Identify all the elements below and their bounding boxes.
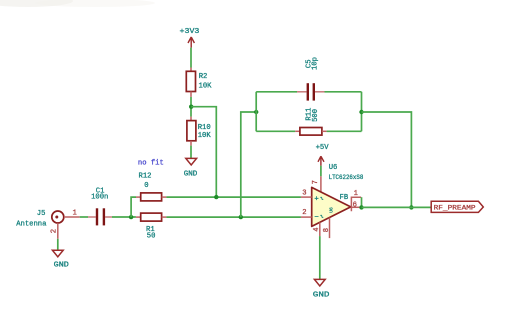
junction pin2 row [239,215,243,219]
pin R1 right [162,216,167,218]
wire feedback right to output drop [362,112,412,207]
svg-text:−: − [314,214,319,222]
pin U6 8 [323,218,331,239]
svg-text:U6: U6 [329,207,335,213]
global label RF_PREAMP [431,201,483,212]
op-amp U6 [312,164,364,226]
svg-text:50: 50 [147,233,156,241]
resistor R11 [300,108,322,135]
svg-text:10K: 10K [199,83,213,91]
wire R2 to R10 [190,97,192,117]
ground op-amp [313,279,330,299]
power flag +5V [316,144,330,166]
wire C5 left [256,91,297,93]
svg-text:4: 4 [313,227,321,231]
pin U6 6 [351,201,361,209]
junction divider node [189,105,193,109]
pin R11 left [295,130,300,132]
svg-text:500: 500 [312,109,320,122]
wire R1 to pin2 [166,216,301,218]
wire R12 to pin3 [166,196,301,198]
pin U6 1 [351,190,361,212]
junction output [359,205,363,209]
wire feedback right vertical [361,92,363,132]
wire divider node to pin3 row [191,107,216,197]
wire +5V to pin7 [320,166,322,177]
power flag +3V3 [180,28,200,48]
wire pin4 to GND [319,236,321,279]
wire C1 to node A [112,216,136,218]
junction node A [129,215,133,219]
pin R12 right [162,196,167,198]
junction feedback right [359,110,363,114]
wire J5 to GND [57,239,59,250]
svg-text:+: + [314,196,319,204]
wire FB to output [361,197,363,207]
pin R2 bottom [190,92,192,97]
svg-text:3: 3 [302,189,306,197]
resistor R10 [187,121,211,141]
svg-text:RF_PREAMP: RF_PREAMP [434,205,476,213]
wire feedback left vertical [255,92,257,132]
pin U6 2 [301,209,312,217]
ground antenna [52,250,68,270]
wire +3V3 to R2 [190,48,192,68]
wire node A up to R12 [131,197,136,217]
wire C5 right [325,91,362,93]
svg-text:10K: 10K [198,132,212,140]
svg-text:FB: FB [340,194,349,202]
pin R11 right [322,130,327,132]
pin C1 right [105,216,112,218]
pin U6 3 [301,189,312,197]
svg-text:+5V: +5V [316,144,330,152]
junction output right [409,205,413,209]
svg-text:LTC6226xS8: LTC6226xS8 [329,174,364,181]
svg-text:0: 0 [144,182,148,190]
pin R10 bottom [190,141,192,146]
svg-text:2: 2 [302,209,306,217]
svg-text:100n: 100n [91,194,108,202]
svg-text:R12: R12 [139,173,152,181]
svg-text:2: 2 [50,229,58,233]
svg-text:7: 7 [312,180,320,184]
capacitor C1 [91,188,108,226]
svg-text:6: 6 [353,201,357,209]
svg-text:U6: U6 [329,164,338,172]
svg-text:1: 1 [73,210,77,218]
svg-text:+3V3: +3V3 [180,28,200,36]
pin R2 top [190,68,192,72]
pin J5 2 [50,223,58,239]
pin R10 top [190,117,192,121]
svg-text:Antenna: Antenna [16,220,47,228]
svg-text:GND: GND [184,170,198,178]
svg-text:R10: R10 [198,124,211,132]
svg-text:no fit: no fit [138,160,164,168]
svg-text:1: 1 [354,190,358,198]
pin R1 left [136,216,141,218]
pin U6 7 [312,176,321,192]
svg-text:R2: R2 [199,73,208,81]
capacitor C5 [306,57,320,101]
wire pin2 node up to feedback left [241,112,256,217]
resistor R1 [141,213,162,241]
resistor R12 [138,160,164,201]
wire J5 to C1 [80,216,88,218]
svg-text:8: 8 [323,228,331,232]
resistor R2 [186,71,212,91]
junction pin3 row [214,195,218,199]
pin R12 left [136,196,141,198]
wire R11 left [256,130,295,132]
wire R10 to GND [190,146,192,158]
connector J5 [16,210,64,228]
svg-text:GND: GND [313,292,330,300]
svg-text:GND: GND [54,262,69,270]
ground divider [184,158,198,178]
pin C5 left [297,91,307,93]
svg-text:J5: J5 [37,210,46,218]
junction feedback left [254,110,258,114]
wire output to flag [362,206,432,208]
pin C1 left [88,216,96,218]
svg-text:10p: 10p [312,57,320,70]
pin J5 1 [64,210,80,218]
wire R11 right [327,130,362,132]
pin C5 right [315,91,325,93]
pin U6 4 [313,222,321,236]
